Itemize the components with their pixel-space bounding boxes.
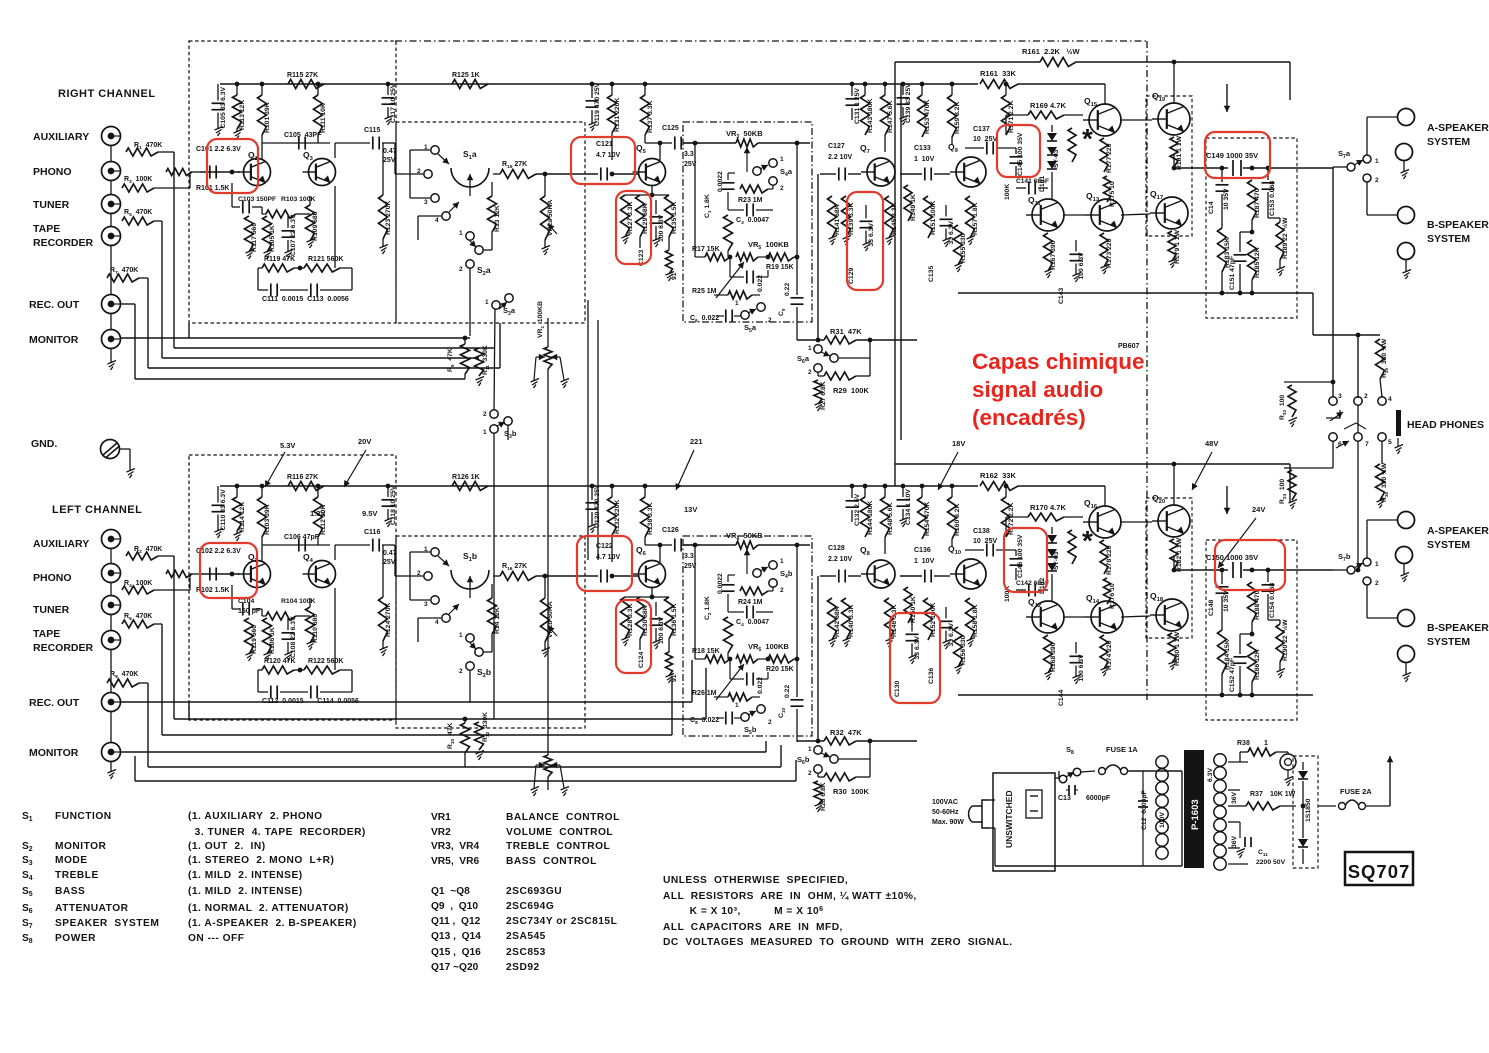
svg-text:33 6.3V: 33 6.3V bbox=[948, 623, 955, 647]
svg-text:R182 1 1W: R182 1 1W bbox=[1176, 537, 1183, 572]
svg-text:VR2: VR2 bbox=[431, 827, 451, 838]
svg-text:25V: 25V bbox=[383, 157, 396, 164]
svg-text:R131 220K: R131 220K bbox=[614, 98, 621, 132]
svg-text:R106 1K: R106 1K bbox=[269, 627, 276, 654]
svg-text:Q17 ~Q20: Q17 ~Q20 bbox=[431, 962, 479, 973]
svg-text:7: 7 bbox=[1365, 441, 1369, 448]
svg-text:R18 15K: R18 15K bbox=[692, 648, 720, 655]
svg-text:(1. NORMAL 2. ATTENUATOR): (1. NORMAL 2. ATTENUATOR) bbox=[188, 903, 349, 914]
svg-text:2SC734Y or 2SC815L: 2SC734Y or 2SC815L bbox=[506, 916, 617, 927]
svg-text:C105 43PF: C105 43PF bbox=[284, 132, 322, 139]
svg-text:5: 5 bbox=[1388, 439, 1392, 446]
svg-text:R157 1.8K: R157 1.8K bbox=[972, 202, 979, 235]
svg-text:P-1603: P-1603 bbox=[1190, 799, 1201, 830]
svg-text:C148: C148 bbox=[1208, 600, 1215, 616]
svg-text:R38: R38 bbox=[1237, 740, 1250, 747]
svg-text:1 10V: 1 10V bbox=[914, 156, 935, 163]
svg-text:1: 1 bbox=[780, 156, 784, 163]
svg-text:Max. 90W: Max. 90W bbox=[932, 819, 964, 826]
svg-text:AUXILIARY: AUXILIARY bbox=[33, 131, 89, 143]
svg-text:MONITOR: MONITOR bbox=[29, 747, 79, 759]
svg-text:TAPE: TAPE bbox=[33, 628, 60, 640]
svg-text:R175 10: R175 10 bbox=[1109, 181, 1116, 207]
svg-text:50-60Hz: 50-60Hz bbox=[932, 809, 959, 816]
svg-text:2SC693GU: 2SC693GU bbox=[506, 886, 562, 897]
svg-text:PHONO: PHONO bbox=[33, 166, 72, 178]
svg-text:C117 10 25V: C117 10 25V bbox=[390, 83, 397, 123]
svg-text:100VAC: 100VAC bbox=[932, 799, 958, 806]
svg-text:R177 220: R177 220 bbox=[1106, 143, 1113, 173]
svg-text:0.022: 0.022 bbox=[757, 275, 764, 292]
svg-text:R23 1M: R23 1M bbox=[738, 197, 763, 204]
svg-text:R119 560: R119 560 bbox=[251, 625, 258, 654]
svg-text:RECORDER: RECORDER bbox=[33, 237, 94, 249]
svg-text:2: 2 bbox=[768, 719, 772, 726]
svg-text:R34​ 100: R34​ 100 bbox=[1279, 479, 1287, 504]
svg-text:SYSTEM: SYSTEM bbox=[1427, 539, 1470, 551]
svg-text:R138 3.3K: R138 3.3K bbox=[647, 502, 654, 535]
svg-text:4: 4 bbox=[435, 619, 439, 626]
svg-text:R154 470K: R154 470K bbox=[924, 502, 931, 536]
svg-text:R187 470: R187 470 bbox=[1254, 188, 1261, 218]
svg-text:R13 12K: R13 12K bbox=[494, 205, 501, 232]
svg-text:2200 50V: 2200 50V bbox=[1256, 859, 1286, 866]
svg-text:R151 100K: R151 100K bbox=[930, 201, 937, 235]
svg-text:5.3V: 5.3V bbox=[280, 441, 295, 450]
svg-text:RIGHT CHANNEL: RIGHT CHANNEL bbox=[58, 88, 156, 100]
svg-text:C112 0.0015 C114 0.005: C112 0.0015 C114 0.0056 bbox=[262, 698, 359, 705]
svg-text:GND.: GND. bbox=[31, 438, 57, 450]
svg-text:(encadrés): (encadrés) bbox=[972, 405, 1086, 430]
svg-text:1: 1 bbox=[483, 429, 487, 436]
svg-text:R124 270K: R124 270K bbox=[385, 603, 392, 637]
svg-text:R119 47K: R119 47K bbox=[264, 256, 295, 263]
svg-text:100 6.3V: 100 6.3V bbox=[1078, 654, 1085, 682]
svg-text:C102 2.2 6.3V: C102 2.2 6.3V bbox=[196, 548, 241, 555]
svg-text:R181 1 1W: R181 1 1W bbox=[1176, 135, 1183, 170]
svg-text:FUSE 2A: FUSE 2A bbox=[1340, 787, 1372, 796]
svg-text:2SA545: 2SA545 bbox=[506, 931, 546, 942]
svg-text:VOLUME CONTROL: VOLUME CONTROL bbox=[506, 827, 613, 838]
svg-text:R160 8.2K: R160 8.2K bbox=[954, 503, 961, 536]
svg-text:R20 15K: R20 15K bbox=[766, 666, 794, 673]
svg-text:48V: 48V bbox=[1205, 439, 1218, 448]
svg-text:ATTENUATOR: ATTENUATOR bbox=[55, 903, 129, 914]
svg-text:10K 1W: 10K 1W bbox=[1270, 791, 1296, 798]
svg-text:R127 3.3K: R127 3.3K bbox=[627, 201, 634, 234]
svg-text:R101 39K: R101 39K bbox=[264, 102, 271, 133]
svg-text:TUNER: TUNER bbox=[33, 199, 70, 211]
svg-text:C133: C133 bbox=[914, 145, 931, 152]
svg-text:ALL RESISTORS ARE IN OHM,: ALL RESISTORS ARE IN OHM, ¼ WATT ±10%, bbox=[663, 891, 917, 902]
svg-text:C129: C129 bbox=[848, 268, 855, 284]
svg-text:PHONO: PHONO bbox=[33, 572, 72, 584]
svg-text:BALANCE CONTROL: BALANCE CONTROL bbox=[506, 812, 620, 823]
svg-text:1: 1 bbox=[459, 230, 463, 237]
svg-text:R37: R37 bbox=[1250, 791, 1263, 798]
svg-text:R139 3.3K: R139 3.3K bbox=[848, 202, 855, 235]
svg-text:R113 12K: R113 12K bbox=[239, 100, 246, 130]
svg-text:C124: C124 bbox=[638, 652, 645, 668]
svg-text:SQ707: SQ707 bbox=[1348, 861, 1411, 882]
svg-text:C152 47pF: C152 47pF bbox=[1229, 658, 1236, 692]
svg-text:24V: 24V bbox=[1252, 505, 1265, 514]
svg-text:C103 150PF: C103 150PF bbox=[238, 196, 276, 203]
svg-text:B-SPEAKER: B-SPEAKER bbox=[1427, 219, 1489, 231]
svg-text:R103 39K: R103 39K bbox=[264, 504, 271, 535]
svg-text:2.2 10V: 2.2 10V bbox=[828, 154, 852, 161]
svg-text:2SD92: 2SD92 bbox=[506, 962, 540, 973]
svg-text:R24 1M: R24 1M bbox=[738, 599, 763, 606]
svg-text:REC. OUT: REC. OUT bbox=[29, 299, 80, 311]
svg-text:221: 221 bbox=[690, 437, 703, 446]
svg-text:R158 1.8K: R158 1.8K bbox=[972, 604, 979, 637]
svg-text:33 6.3V: 33 6.3V bbox=[868, 223, 875, 247]
svg-text:9.5V: 9.5V bbox=[362, 509, 377, 518]
svg-text:SYSTEM: SYSTEM bbox=[1427, 136, 1470, 148]
svg-text:R142 68K: R142 68K bbox=[834, 606, 841, 637]
svg-text:C14: C14 bbox=[1208, 201, 1215, 214]
svg-text:100 6.3V: 100 6.3V bbox=[658, 616, 665, 644]
svg-text:100K: 100K bbox=[1004, 184, 1011, 200]
svg-text:3.3: 3.3 bbox=[684, 553, 694, 560]
svg-text:R11​ 330K: R11​ 330K bbox=[482, 345, 490, 375]
svg-text:R143 180K: R143 180K bbox=[867, 99, 874, 133]
svg-text:R159 8.2K: R159 8.2K bbox=[954, 101, 961, 134]
svg-text:Capas chimique: Capas chimique bbox=[972, 349, 1145, 374]
svg-text:C106 47pF: C106 47pF bbox=[284, 534, 320, 541]
svg-text:R178 220: R178 220 bbox=[1106, 545, 1113, 575]
svg-text:REC. OUT: REC. OUT bbox=[29, 697, 80, 709]
svg-text:C154 0.068: C154 0.068 bbox=[1269, 583, 1276, 618]
svg-text:3: 3 bbox=[1338, 393, 1342, 400]
svg-text:3: 3 bbox=[424, 199, 428, 206]
svg-text:C116: C116 bbox=[364, 529, 380, 536]
svg-text:R168 390: R168 390 bbox=[1050, 642, 1057, 672]
svg-text:TREBLE CONTROL: TREBLE CONTROL bbox=[506, 841, 610, 852]
svg-text:SYSTEM: SYSTEM bbox=[1427, 636, 1470, 648]
svg-text:FUSE 1A: FUSE 1A bbox=[1106, 745, 1138, 754]
svg-text:(1. MILD 2. INTENSE): (1. MILD 2. INTENSE) bbox=[188, 886, 303, 897]
svg-text:R19 15K: R19 15K bbox=[766, 264, 794, 271]
svg-text:C136: C136 bbox=[928, 668, 935, 684]
svg-text:C145 100 35V: C145 100 35V bbox=[1017, 132, 1024, 176]
svg-text:1: 1 bbox=[780, 558, 784, 565]
svg-text:20V: 20V bbox=[358, 437, 371, 446]
svg-text:4.7 10V: 4.7 10V bbox=[596, 554, 620, 561]
svg-text:0.022: 0.022 bbox=[757, 677, 764, 694]
svg-text:2SC853: 2SC853 bbox=[506, 947, 546, 958]
svg-text:25V: 25V bbox=[383, 559, 396, 566]
svg-text:33 6.3V: 33 6.3V bbox=[914, 636, 921, 660]
svg-text:C143: C143 bbox=[1058, 288, 1065, 304]
svg-text:R148 5.6K: R148 5.6K bbox=[887, 502, 894, 535]
svg-text:3.3: 3.3 bbox=[684, 151, 694, 158]
svg-text:R114 12K: R114 12K bbox=[239, 502, 246, 532]
svg-text:R9​ 47K: R9​ 47K bbox=[447, 348, 455, 372]
svg-text:Q1 ~Q8: Q1 ~Q8 bbox=[431, 886, 470, 897]
svg-text:2: 2 bbox=[780, 185, 784, 192]
svg-text:R146 3.3K: R146 3.3K bbox=[891, 604, 898, 637]
svg-text:HEAD PHONES: HEAD PHONES bbox=[1407, 419, 1484, 431]
svg-text:R132 220K: R132 220K bbox=[614, 500, 621, 534]
svg-text:91: 91 bbox=[671, 674, 678, 682]
svg-text:(1. STEREO 2. MONO L+R): (1. STEREO 2. MONO L+R) bbox=[188, 855, 334, 866]
svg-text:DC VOLTAGES MEASURED TO GR: DC VOLTAGES MEASURED TO GROUND WITH ZERO… bbox=[663, 937, 1013, 948]
svg-text:36V: 36V bbox=[1231, 791, 1238, 804]
svg-text:BASS CONTROL: BASS CONTROL bbox=[506, 856, 597, 867]
svg-text:R171 2.2K: R171 2.2K bbox=[1008, 100, 1015, 133]
svg-text:3. TUNER 4. TAPE RECORDER): 3. TUNER 4. TAPE RECORDER) bbox=[188, 827, 366, 838]
svg-text:C108 22 6.3V: C108 22 6.3V bbox=[290, 616, 297, 658]
svg-text:R152 100K: R152 100K bbox=[930, 603, 937, 637]
svg-text:0.22: 0.22 bbox=[784, 283, 791, 296]
svg-text:(1. AUXILIARY 2. PHONO: (1. AUXILIARY 2. PHONO bbox=[188, 811, 323, 822]
svg-text:C127: C127 bbox=[828, 143, 845, 150]
svg-text:C149 1000 35V: C149 1000 35V bbox=[1206, 151, 1258, 160]
svg-text:R116 27K: R116 27K bbox=[287, 474, 318, 481]
svg-text:C144: C144 bbox=[1058, 690, 1065, 706]
svg-text:1: 1 bbox=[735, 300, 739, 307]
svg-text:Q13 , Q14: Q13 , Q14 bbox=[431, 931, 481, 942]
svg-text:R136 1.5K: R136 1.5K bbox=[671, 603, 678, 636]
svg-text:R125 1K: R125 1K bbox=[452, 72, 480, 79]
svg-text:D101: D101 bbox=[1039, 176, 1046, 192]
svg-text:1S1850: 1S1850 bbox=[1305, 798, 1312, 822]
svg-text:C115: C115 bbox=[364, 127, 380, 134]
svg-text:C119 470 25V: C119 470 25V bbox=[594, 82, 601, 126]
svg-text:0.22: 0.22 bbox=[784, 685, 791, 698]
svg-text:36V: 36V bbox=[1231, 835, 1238, 848]
svg-text:R129 68K: R129 68K bbox=[642, 203, 649, 234]
svg-text:C138: C138 bbox=[973, 528, 990, 535]
svg-text:B-SPEAKER: B-SPEAKER bbox=[1427, 622, 1489, 634]
svg-text:C135: C135 bbox=[928, 266, 935, 282]
svg-text:R190 22 ½W: R190 22 ½W bbox=[1281, 619, 1289, 661]
svg-text:1: 1 bbox=[808, 345, 812, 352]
svg-text:1: 1 bbox=[735, 702, 739, 709]
svg-text:R144 180K: R144 180K bbox=[867, 501, 874, 535]
svg-text:R14 12K: R14 12K bbox=[494, 607, 501, 634]
svg-text:C132 2.5V: C132 2.5V bbox=[854, 493, 861, 526]
svg-text:R117 560: R117 560 bbox=[251, 223, 258, 252]
svg-text:UNSWITCHED: UNSWITCHED bbox=[1004, 790, 1014, 848]
svg-text:BASS: BASS bbox=[55, 886, 85, 897]
svg-text:13V: 13V bbox=[684, 505, 697, 514]
svg-text:1: 1 bbox=[1375, 158, 1379, 165]
svg-text:MONITOR: MONITOR bbox=[29, 334, 79, 346]
svg-text:C118 10 25V: C118 10 25V bbox=[390, 485, 397, 525]
svg-text:C137: C137 bbox=[973, 126, 990, 133]
svg-text:1.3V: 1.3V bbox=[310, 509, 325, 518]
svg-text:A-SPEAKER: A-SPEAKER bbox=[1427, 525, 1489, 537]
svg-text:R32 47K: R32 47K bbox=[830, 728, 862, 737]
svg-text:UNLESS OTHERWISE SPECIFIED,: UNLESS OTHERWISE SPECIFIED, bbox=[663, 875, 848, 886]
svg-text:R110 680: R110 680 bbox=[312, 614, 319, 643]
svg-text:10 35V: 10 35V bbox=[1223, 590, 1230, 612]
svg-text:R135 1.5K: R135 1.5K bbox=[671, 201, 678, 234]
svg-text:R167 390: R167 390 bbox=[1050, 240, 1057, 270]
svg-text:R150 1K: R150 1K bbox=[910, 596, 917, 623]
svg-text:2: 2 bbox=[459, 668, 463, 675]
svg-text:R130 68K: R130 68K bbox=[642, 605, 649, 636]
svg-text:R153 470K: R153 470K bbox=[924, 100, 931, 134]
svg-text:R10​ 47K: R10​ 47K bbox=[447, 723, 455, 749]
svg-text:FUNCTION: FUNCTION bbox=[55, 811, 112, 822]
svg-text:2: 2 bbox=[1375, 580, 1379, 587]
svg-text:100 6.3V: 100 6.3V bbox=[658, 214, 665, 242]
svg-text:SPEAKER SYSTEM: SPEAKER SYSTEM bbox=[55, 918, 159, 929]
svg-text:R141 68K: R141 68K bbox=[834, 204, 841, 235]
svg-text:R30 100K: R30 100K bbox=[833, 787, 869, 796]
svg-text:(1. A-SPEAKER 2. B-SPEAKER): (1. A-SPEAKER 2. B-SPEAKER) bbox=[188, 918, 357, 929]
svg-text:C150 1000 35V: C150 1000 35V bbox=[1206, 553, 1258, 562]
svg-text:AUXILIARY: AUXILIARY bbox=[33, 538, 89, 550]
svg-text:R185 12K: R185 12K bbox=[1254, 247, 1261, 278]
svg-text:C105 33 6.3V: C105 33 6.3V bbox=[220, 86, 227, 128]
svg-text:R188 470: R188 470 bbox=[1254, 590, 1261, 620]
svg-text:1: 1 bbox=[1375, 561, 1379, 568]
svg-text:R186 12K: R186 12K bbox=[1254, 649, 1261, 680]
svg-text:C107 22 6.3V: C107 22 6.3V bbox=[290, 214, 297, 256]
svg-text:R126 1K: R126 1K bbox=[452, 474, 480, 481]
svg-text:33 6.3V: 33 6.3V bbox=[948, 221, 955, 245]
svg-text:C139 33 25V: C139 33 25V bbox=[905, 83, 912, 123]
svg-text:C126: C126 bbox=[662, 527, 679, 534]
svg-text:VR1​ 100KB: VR1​ 100KB bbox=[537, 301, 545, 338]
svg-text:SYSTEM: SYSTEM bbox=[1427, 233, 1470, 245]
svg-text:R33​ 100: R33​ 100 bbox=[1279, 395, 1287, 420]
svg-text:R17 15K: R17 15K bbox=[692, 246, 720, 253]
svg-text:2: 2 bbox=[483, 411, 487, 418]
svg-text:C131 1 25V: C131 1 25V bbox=[854, 88, 861, 124]
svg-text:4: 4 bbox=[1388, 396, 1392, 403]
svg-text:R169 4.7K: R169 4.7K bbox=[1030, 101, 1066, 110]
svg-text:R189 22 ½W: R189 22 ½W bbox=[1281, 217, 1289, 259]
svg-text:C125: C125 bbox=[662, 125, 679, 132]
svg-text:2: 2 bbox=[780, 587, 784, 594]
svg-text:Q9 , Q10: Q9 , Q10 bbox=[431, 901, 478, 912]
svg-text:C121: C121 bbox=[596, 141, 613, 148]
svg-text:R25 1M: R25 1M bbox=[692, 288, 717, 295]
svg-text:LEFT CHANNEL: LEFT CHANNEL bbox=[52, 504, 142, 516]
svg-text:2: 2 bbox=[1375, 177, 1379, 184]
svg-text:3: 3 bbox=[424, 601, 428, 608]
svg-text:2: 2 bbox=[1364, 393, 1368, 400]
svg-text:C110 33 6.3V: C110 33 6.3V bbox=[220, 489, 227, 531]
svg-text:10 35V: 10 35V bbox=[1223, 188, 1230, 210]
svg-text:R115 27K: R115 27K bbox=[287, 72, 318, 79]
svg-text:C120 470 25V: C120 470 25V bbox=[594, 484, 601, 528]
svg-text:2: 2 bbox=[808, 770, 812, 777]
svg-text:C151 47pF: C151 47pF bbox=[1229, 256, 1236, 290]
svg-text:1: 1 bbox=[485, 299, 489, 306]
svg-text:POWER: POWER bbox=[55, 933, 96, 944]
svg-text:signal audio: signal audio bbox=[972, 377, 1103, 402]
svg-text:2.2 10V: 2.2 10V bbox=[828, 556, 852, 563]
svg-text:1: 1 bbox=[808, 746, 812, 753]
svg-text:91: 91 bbox=[671, 272, 678, 280]
svg-text:VR2a 50KA: VR2a 50KA bbox=[547, 200, 554, 236]
svg-text:C111 0.0015 C113 0.0056: C111 0.0015 C113 0.0056 bbox=[262, 296, 349, 303]
svg-text:R156 330: R156 330 bbox=[960, 635, 967, 665]
svg-text:4.7 10V: 4.7 10V bbox=[596, 152, 620, 159]
svg-text:C13: C13 bbox=[1058, 795, 1071, 802]
svg-text:R123 270K: R123 270K bbox=[385, 201, 392, 235]
svg-text:C134 1 10V: C134 1 10V bbox=[905, 489, 912, 525]
svg-text:R28 6.8K: R28 6.8K bbox=[820, 782, 827, 811]
svg-text:Q15 , Q16: Q15 , Q16 bbox=[431, 947, 481, 958]
svg-text:C12 6000pF: C12 6000pF bbox=[1141, 790, 1148, 830]
svg-text:RECORDER: RECORDER bbox=[33, 642, 94, 654]
svg-text:R149 1K: R149 1K bbox=[910, 194, 917, 221]
svg-text:ALL CAPACITORS ARE IN MFD,: ALL CAPACITORS ARE IN MFD, bbox=[663, 922, 843, 933]
svg-text:C101 2.2 6.3V: C101 2.2 6.3V bbox=[196, 146, 241, 153]
svg-text:2: 2 bbox=[459, 266, 463, 273]
svg-text:C130: C130 bbox=[894, 681, 901, 697]
svg-text:TUNER: TUNER bbox=[33, 604, 70, 616]
svg-text:A-SPEAKER: A-SPEAKER bbox=[1427, 122, 1489, 134]
svg-text:TAPE: TAPE bbox=[33, 223, 60, 235]
svg-text:R109 680: R109 680 bbox=[312, 211, 319, 241]
svg-text:6000pF: 6000pF bbox=[1086, 795, 1111, 802]
svg-text:R155 330: R155 330 bbox=[960, 233, 967, 263]
svg-text:R179 1 1W: R179 1 1W bbox=[1174, 229, 1181, 264]
svg-text:R26 1M: R26 1M bbox=[692, 690, 717, 697]
svg-text:2SC694G: 2SC694G bbox=[506, 901, 554, 912]
svg-text:TREBLE: TREBLE bbox=[55, 870, 99, 881]
svg-text:R174 220: R174 220 bbox=[1106, 640, 1113, 670]
svg-text:R29 100K: R29 100K bbox=[833, 386, 869, 395]
svg-text:R122 560K: R122 560K bbox=[308, 658, 343, 665]
svg-text:2: 2 bbox=[768, 317, 772, 324]
svg-text:6.3V: 6.3V bbox=[1207, 768, 1214, 782]
svg-text:R27 6.8K: R27 6.8K bbox=[820, 381, 827, 410]
svg-text:R161 33K: R161 33K bbox=[980, 69, 1016, 78]
svg-text:R170 4.7K: R170 4.7K bbox=[1030, 503, 1066, 512]
svg-text:C128: C128 bbox=[828, 545, 845, 552]
svg-text:ON --- OFF: ON --- OFF bbox=[188, 933, 245, 944]
svg-text:C146 100 35V: C146 100 35V bbox=[1017, 534, 1024, 578]
svg-text:C136: C136 bbox=[914, 547, 931, 554]
svg-text:4: 4 bbox=[435, 217, 439, 224]
svg-text:R140 3.3K: R140 3.3K bbox=[848, 604, 855, 637]
svg-text:R176 10: R176 10 bbox=[1109, 583, 1116, 609]
svg-text:(1. OUT 2. IN): (1. OUT 2. IN) bbox=[188, 841, 266, 852]
svg-text:VR5, VR6: VR5, VR6 bbox=[431, 856, 479, 867]
svg-text:2: 2 bbox=[808, 369, 812, 376]
svg-text:R161 2.2K ½W: R161 2.2K ½W bbox=[1022, 47, 1080, 56]
svg-text:Q11 , Q12: Q11 , Q12 bbox=[431, 916, 481, 927]
svg-text:R162 33K: R162 33K bbox=[980, 471, 1016, 480]
svg-text:R111 10K: R111 10K bbox=[320, 103, 327, 133]
svg-text:1: 1 bbox=[1264, 740, 1268, 747]
svg-text:R147 5.6K: R147 5.6K bbox=[887, 100, 894, 133]
svg-text:1 10V: 1 10V bbox=[914, 558, 935, 565]
svg-text:R121 560K: R121 560K bbox=[308, 256, 343, 263]
svg-text:R180 1 1W: R180 1 1W bbox=[1174, 631, 1181, 666]
svg-text:1: 1 bbox=[459, 632, 463, 639]
svg-text:C153 0.068: C153 0.068 bbox=[1269, 181, 1276, 216]
svg-text:VR1: VR1 bbox=[431, 812, 451, 823]
svg-text:VR3, VR4: VR3, VR4 bbox=[431, 841, 479, 852]
svg-text:C1​ 1.8K: C1​ 1.8K bbox=[704, 194, 712, 218]
svg-text:R12​ 330K: R12​ 330K bbox=[482, 712, 490, 742]
svg-text:R120 47K: R120 47K bbox=[264, 658, 296, 665]
svg-text:R105 1K: R105 1K bbox=[269, 225, 276, 252]
svg-text:MODE: MODE bbox=[55, 855, 88, 866]
svg-text:R173 220: R173 220 bbox=[1106, 238, 1113, 268]
